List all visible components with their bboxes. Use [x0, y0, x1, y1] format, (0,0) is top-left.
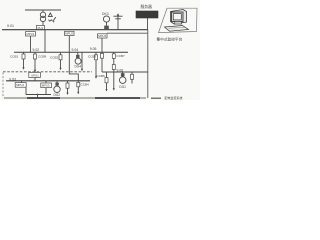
- svg-text:UPS1: UPS1: [31, 73, 39, 77]
- bus 3 (sub distribution): [14, 51, 128, 53]
- breaker box DG1: [121, 73, 125, 76]
- wire DK3 to contact box: [106, 22, 108, 26]
- computer keyboard: [165, 26, 189, 32]
- breaker DK3 circle: [103, 16, 109, 22]
- svg-text:MPU1: MPU1: [27, 32, 35, 36]
- bottom frame bold segment left: [27, 97, 60, 99]
- feeder arrow near transformer: [53, 17, 56, 21]
- wire junction stub down: [37, 95, 39, 98]
- MPU3 box below bus2 (right): [98, 34, 108, 38]
- svg-text:9.06: 9.06: [117, 69, 124, 73]
- MPU1 box below bus2: [26, 32, 36, 36]
- fuse drop below sub-bus: [106, 72, 108, 90]
- comm line to monitor platform: [107, 32, 148, 34]
- svg-text:DK3: DK3: [102, 12, 109, 16]
- bottom frame line: [4, 97, 146, 99]
- sub-bus right (9.06): [102, 71, 148, 73]
- fuse CCB5 long drop: [95, 52, 97, 77]
- generator DG1 circle: [119, 77, 126, 84]
- wire MPU4 to tie line: [25, 88, 27, 95]
- svg-text:CCB6: CCB6: [97, 74, 106, 78]
- svg-text:9.05: 9.05: [90, 47, 97, 51]
- bus 2 (main LV bus): [2, 29, 148, 31]
- wire drop to transformer: [42, 10, 44, 12]
- PT / arrester symbol: [117, 15, 119, 30]
- generator DG2 circle: [54, 86, 60, 92]
- network switch (black box): [136, 11, 158, 18]
- fuse drop on bus4: [67, 81, 69, 93]
- transformer T1 (two-winding circles): [40, 12, 45, 17]
- fuse CCB9 feed to UPS: [34, 52, 36, 72]
- generator DG4 circle: [75, 58, 81, 64]
- svg-text:MPU2: MPU2: [65, 32, 73, 36]
- winding symbol delta: [48, 13, 52, 17]
- computer U-PC monitor: [165, 10, 189, 32]
- wire MPU5 to tie line: [45, 88, 47, 95]
- svg-text:服务器: 服务器: [141, 4, 153, 9]
- computer stand: [174, 22, 181, 25]
- svg-text:9.04: 9.04: [72, 48, 79, 52]
- dashed enclosure top border: [3, 71, 92, 73]
- winding symbol wye/zigzag: [48, 20, 52, 22]
- bus T1-top (incoming HV bus): [25, 9, 61, 11]
- fuse CCB7 long drop: [113, 52, 115, 88]
- svg-text:DG4: DG4: [75, 65, 82, 69]
- svg-text:CCB1: CCB1: [10, 55, 19, 59]
- fuse stub on sub-bus: [131, 72, 133, 84]
- svg-text:配电监控系统: 配电监控系统: [165, 95, 183, 100]
- wire MPU1 to bus 3: [30, 36, 32, 52]
- bus 4 (emergency bus): [6, 80, 90, 82]
- svg-text:CCB7: CCB7: [117, 54, 126, 58]
- svg-text:PU1: PU1: [38, 26, 44, 30]
- monitor enclosure outline: [159, 8, 198, 32]
- wire plain drop bus2 to bus3: [44, 30, 46, 53]
- svg-text:MPU5: MPU5: [42, 84, 50, 88]
- feeder arrow CCB3: [81, 52, 83, 69]
- svg-text:CCB5: CCB5: [88, 55, 97, 59]
- svg-text:CCB4: CCB4: [81, 83, 90, 87]
- wire UPS1 to bus 4: [34, 77, 36, 80]
- svg-text:DG1: DG1: [119, 85, 126, 89]
- svg-text:集中式监控平台: 集中式监控平台: [157, 36, 183, 41]
- svg-text:9.03: 9.03: [9, 77, 16, 81]
- svg-text:9.02: 9.02: [33, 48, 40, 52]
- node junction on tie line: [37, 94, 39, 96]
- bottom frame bold segment right: [95, 97, 140, 99]
- svg-text:MPU3: MPU3: [98, 34, 106, 38]
- contact box under DK3: [104, 26, 109, 29]
- tie line bottom: [26, 94, 51, 96]
- MPU2 box below bus2: [65, 31, 75, 35]
- svg-text:9.01: 9.01: [7, 24, 14, 28]
- wire transformer to PU1 box: [42, 22, 44, 26]
- breaker box for DG4: [77, 52, 79, 58]
- wire MPU3 down: [101, 38, 103, 72]
- svg-text:MPU4: MPU4: [16, 83, 24, 87]
- fuse CCB1: [23, 52, 25, 68]
- svg-text:CCB2: CCB2: [50, 55, 59, 59]
- caption tick: [151, 97, 161, 99]
- riser wire (right vertical): [147, 30, 149, 98]
- UPS1 box: [29, 72, 41, 77]
- wire MPU2 down with jog: [69, 36, 78, 93]
- breaker box DG2: [56, 81, 58, 86]
- protection unit PU1 box: [37, 25, 45, 29]
- MPU5 box below bus4: [45, 81, 47, 83]
- dashed enclosure left border: [2, 73, 4, 99]
- svg-text:DG2: DG2: [54, 93, 61, 97]
- fuse second element on CCB7 drop: [112, 65, 115, 70]
- svg-text:CCB9: CCB9: [38, 55, 47, 59]
- fuse CCB4: [77, 82, 80, 86]
- wire switch to bus 2 / riser: [147, 18, 149, 30]
- MPU4 box below bus4: [21, 81, 23, 83]
- fuse CCB2: [60, 52, 62, 68]
